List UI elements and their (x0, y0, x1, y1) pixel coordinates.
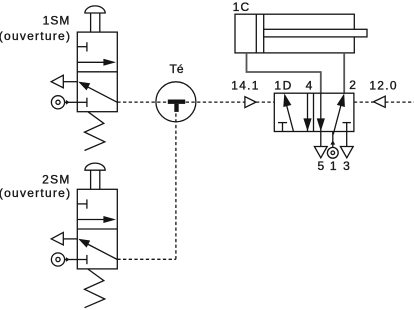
svg-text:(ouverture): (ouverture) (0, 186, 71, 200)
cylinder 1C piston rod (264, 29, 367, 37)
valve 1SM pushbutton mushroom actuator (85, 6, 105, 32)
valve 1D exhaust port 3 (340, 147, 353, 158)
svg-text:Té: Té (169, 62, 183, 76)
svg-text:2SM: 2SM (42, 172, 71, 186)
valve 1SM body (77, 32, 117, 112)
svg-text:1: 1 (330, 159, 337, 173)
valve 2SM bottom position flow diagonal to exhaust (78, 239, 117, 260)
valve 2SM top position flow arrow (77, 216, 116, 223)
junction Té T-symbol (168, 100, 185, 112)
cylinder 1C piston (256, 14, 263, 53)
wire: dashed pilot line valve 1D right pilot port to 12.0 triangle (354, 101, 374, 103)
valve 1D right position blocked port 3 (343, 123, 351, 147)
junction Té circle (156, 82, 196, 122)
valve 1SM top position flow arrow (77, 59, 116, 66)
pilot arrow 12.0 (374, 96, 386, 107)
valve 1D pressure source port 1 (327, 132, 338, 158)
svg-text:2: 2 (349, 78, 356, 92)
valve 1D right position flow 4 to 5 arrow (317, 93, 325, 131)
valve 2SM pushbutton mushroom actuator (85, 163, 105, 189)
valve 2SM pressure source (51, 253, 77, 266)
svg-text:1C: 1C (233, 0, 251, 14)
wire: dashed pilot line 1SM output to 14.1 triangle (117, 101, 245, 103)
wire: dashed pilot line 14.1 triangle to valve 1D left pilot port (256, 101, 274, 103)
valve 1SM exhaust triangle (51, 75, 77, 88)
valve 1SM top position blocked port (77, 42, 87, 51)
svg-text:(ouverture): (ouverture) (0, 29, 71, 43)
wire: dashed pilot line Té down (175, 102, 177, 259)
valve 1D left position flow 1 to 4 arrow (283, 93, 293, 131)
valve 2SM body (77, 189, 117, 269)
valve 2SM bottom position blocked source port (77, 255, 87, 264)
valve 1SM return spring (85, 112, 105, 151)
valve 1SM pressure source (51, 96, 77, 109)
svg-text:5: 5 (317, 159, 324, 173)
svg-text:3: 3 (343, 159, 350, 173)
valve 1D exhaust port 5 (314, 132, 327, 158)
svg-text:12.0: 12.0 (369, 79, 398, 93)
wire: cylinder right port to valve 1D port 2 (343, 53, 345, 93)
svg-text:1SM: 1SM (43, 14, 71, 28)
valve 1D body (274, 93, 354, 131)
svg-text:14.1: 14.1 (231, 79, 260, 93)
valve 1SM bottom position blocked source port (77, 98, 87, 107)
valve 1D left position blocked port 5 (278, 123, 287, 132)
wire: cylinder left port to valve 1D port 4 (247, 53, 321, 93)
cylinder 1C body (235, 14, 354, 53)
valve 2SM return spring (85, 269, 105, 308)
valve 1SM bottom position flow diagonal to exhaust (78, 82, 117, 103)
svg-text:1D: 1D (274, 79, 292, 93)
valve 1D right position flow 1 to 2 arrow (333, 93, 345, 134)
valve 2SM exhaust triangle (51, 232, 77, 245)
svg-text:4: 4 (306, 79, 313, 93)
valve 2SM top position blocked port (77, 199, 87, 208)
wire: dashed pilot line 12.0 triangle to right edge (385, 101, 414, 103)
pilot arrow 14.1 (245, 97, 256, 108)
wire: dashed pilot line 2SM output to Té corner (117, 258, 176, 260)
valve 1D left position flow 2 to 3 arrow (303, 93, 311, 131)
